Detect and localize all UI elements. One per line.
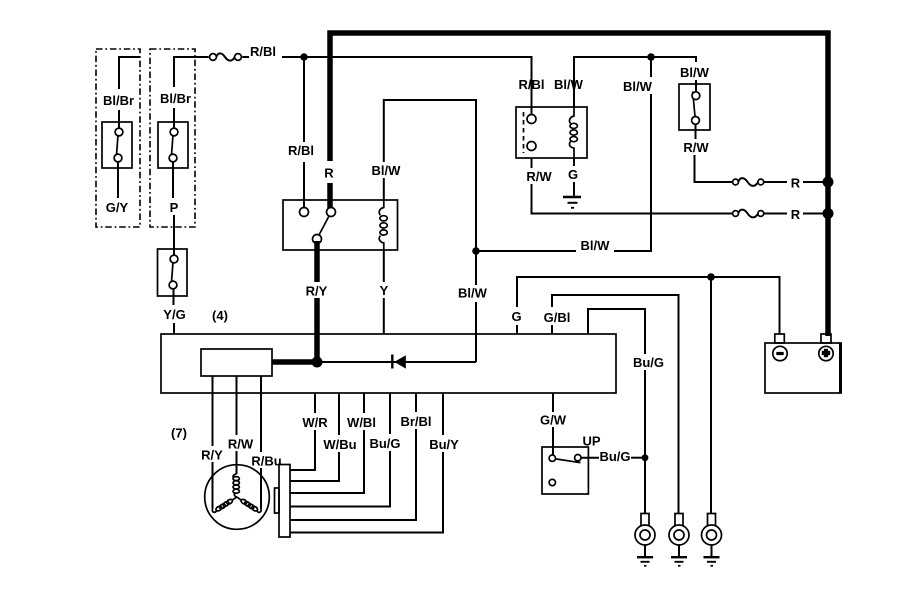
node R upper on battery lead [823,177,834,188]
ground (K2 coil) [563,197,581,208]
svg-text:R/Bl: R/Bl [250,44,276,59]
thick wire R: right drop to battery + [825,31,831,337]
battery BT1 [765,334,841,393]
thick wire R: label R to relay K1 terminal [327,183,333,208]
wire Bl/Br switch S2 top to fuse F1 [174,57,209,87]
rectifier block inside unit (4) [201,349,272,376]
switch S2 [158,122,188,168]
wire R/Bu: unit (4) to label [260,376,262,452]
wire S3 bottom to Y/G label [173,289,175,305]
wire Bl/W node to label [475,251,477,285]
fuse F2 [733,178,764,186]
wire fuse F2 to R label [764,181,787,183]
svg-text:W/R: W/R [302,415,328,430]
svg-text:G/Bl: G/Bl [544,310,571,325]
wire Bl/W bridge: K1 coil top up and over [383,178,385,200]
wire Bu/G: unit (4) up, over, down to label [588,309,645,354]
wire Bu/G label to connector J1 [290,451,390,507]
wire R/W: label, corner, to fuse F3 [532,184,733,214]
svg-text:G/W: G/W [540,413,567,428]
svg-text:R: R [791,207,801,222]
wire R/Y: unit (4) to label [212,376,214,446]
wire node to diode to Bl/W drop [317,361,476,363]
wire Bl/W top run: relay K2 coil to switch S4 [574,57,696,107]
wire R/Bl label to relay K1 terminal [303,162,305,208]
wire R/W: label, corner, to fuse F2 [695,155,733,182]
switch S4 (Bl/W switch) [679,84,710,130]
wire Y: label to unit (4) [383,298,385,334]
node Bl/W junction [472,247,480,255]
wire node down to ring terminal E1 [644,458,646,514]
wire S1 label to switch [118,110,120,128]
wire W/Bu: unit (4) to label [338,393,340,435]
ring terminal E1 [635,514,655,557]
wire Bl/W horizontal: label to riser [614,94,651,251]
wire fuse F1 to R/Bl label [242,56,249,58]
ring terminal E3 [702,514,722,557]
wire W/R label to connector J1 [290,430,315,470]
svg-text:G: G [568,167,578,182]
wire Bu/G label to node [631,457,645,459]
wire W/Bl: unit (4) to label [363,393,365,413]
relay K2 [516,107,587,158]
svg-text:Bl/Br: Bl/Br [103,93,134,108]
svg-text:R/W: R/W [683,140,709,155]
wire R/W: S4 to label [695,124,697,139]
wire W/R: unit (4) to label [314,393,316,413]
thick wire R/Y: label to node in unit (4) [314,298,320,362]
wire R/W label into alternator [236,451,238,474]
node on negative feed [707,273,715,281]
svg-text:Bl/W: Bl/W [458,286,488,301]
switch S1 [102,122,132,168]
svg-text:R/Bl: R/Bl [288,143,314,158]
wire R label to thick bus [803,213,828,215]
wire Bl/W label into unit (4) [475,302,477,362]
ground E3 [704,557,720,566]
thick wire R: top bus horizontal [328,30,831,36]
thick wire rectifier to node [272,359,317,365]
node Bu/G junction [642,454,649,461]
svg-text:W/Bl: W/Bl [347,415,376,430]
svg-text:R/Bl: R/Bl [519,77,545,92]
svg-text:R/Y: R/Y [201,448,223,463]
switch S3 (clutch switch) [158,249,188,296]
wire G/W label to UP switch [552,427,554,455]
wire Bu/Y: unit (4) to label [442,393,444,435]
svg-text:(4): (4) [212,308,228,323]
alternator (7) stator [205,465,270,530]
svg-text:Bl/W: Bl/W [554,77,584,92]
wire Bl/W riser top to node [650,57,652,77]
wire W/Bu label to connector J1 [290,452,339,481]
wire R/Y label into alternator [212,462,214,509]
ground E1 [637,557,653,566]
wire Br/Bl label to connector J1 [290,429,416,520]
unit (4) CDI box [161,334,616,393]
wire Bu/G label to node at UP switch [644,370,646,458]
wire G/Bl: unit (4) up, over, down to ring terminal E2 [552,295,679,514]
wire P label to switch S3 [173,215,175,255]
wire S2 label to switch [173,108,175,128]
switch S5 (UP switch) [542,447,588,494]
ground E2 [671,557,687,566]
svg-text:R: R [324,166,334,181]
wire R/W: unit (4) to label [236,376,238,435]
wire battery negative up and across (G feed) [517,277,780,334]
enclosure box 1 (dash-dot, left handlebar switch) [96,49,140,227]
svg-text:Bu/G: Bu/G [599,449,630,464]
svg-text:R/Y: R/Y [306,284,328,299]
thick wire R/Y: K1 to label [314,241,320,282]
svg-text:Bl/W: Bl/W [680,65,710,80]
wire Bu/Y label to connector J1 [290,452,443,533]
node main junction in unit (4) [312,357,323,368]
ring terminal E2 [669,514,689,557]
svg-text:P: P [170,200,179,215]
wire G label into unit (4) [516,325,518,334]
fuse F3 [733,210,764,218]
wire Y/G label to unit (4) [173,323,175,334]
fuse F1 [210,53,242,60]
svg-text:Br/Bl: Br/Bl [400,414,431,429]
svg-text:R: R [791,176,801,191]
diode D1 [392,355,406,369]
wire R label to thick bus [803,181,828,183]
svg-text:Bu/G: Bu/G [369,436,400,451]
wire G/W: unit (4) to label [552,393,554,412]
wire S1 bottom to G/Y label [117,162,119,198]
wire W/Bl label to connector J1 [290,430,364,493]
svg-text:Y: Y [380,283,389,298]
wire R/W: K2 to label [531,158,533,168]
wire R/Bl label to relay K2, node at x304 [282,57,532,115]
svg-text:W/Bu: W/Bu [323,437,356,452]
coil of relay K1 [379,200,387,250]
wire Bl/W label into S4 [695,80,697,92]
relay K1 (starter relay) [283,200,398,250]
wire S5 to Bu/G label [581,457,599,459]
wire Br/Bl: unit (4) to label [415,393,417,412]
svg-text:R/W: R/W [526,169,552,184]
svg-text:(7): (7) [171,426,187,441]
svg-text:Bl/W: Bl/W [372,163,402,178]
node R lower on battery lead [823,208,834,219]
thick wire R: left drop to label R [327,31,333,162]
wire Bu/G: unit (4) to label [389,393,391,434]
wire Bl/Br switch S1 top to box edge [119,57,140,89]
svg-text:UP: UP [582,434,600,449]
wire node down to ring terminal E3 [710,277,712,514]
wire Y: K1 coil to label [383,250,385,282]
svg-text:Bu/G: Bu/G [633,355,664,370]
svg-text:R/W: R/W [228,437,254,452]
svg-text:Y/G: Y/G [163,307,185,322]
node Bl/W top junction [647,53,655,61]
wire G label to ground [573,182,575,196]
wire fuse F3 to R label [764,213,787,215]
enclosure box 2 (dash-dot, right handlebar switch) [150,49,195,227]
wire G: K2 coil to label [573,158,575,166]
coil of relay K2 [569,107,577,158]
node R/Bl junction [300,53,307,60]
svg-text:Bu/Y: Bu/Y [429,437,459,452]
wire G/Bl label into unit (4) [551,325,553,334]
wire R/Bl node down to label [303,57,305,142]
connector J1 [275,465,291,538]
svg-text:G: G [511,309,521,324]
wire S2 bottom to P label [172,162,174,198]
svg-text:G/Y: G/Y [106,200,129,215]
svg-text:Bl/W: Bl/W [581,238,611,253]
svg-text:R/Bu: R/Bu [251,454,281,469]
svg-text:Bl/W: Bl/W [623,79,653,94]
wire R/Bu label into alternator [260,468,262,509]
svg-text:Bl/Br: Bl/Br [160,91,191,106]
wire Bl/W horizontal: node to label [476,250,576,252]
